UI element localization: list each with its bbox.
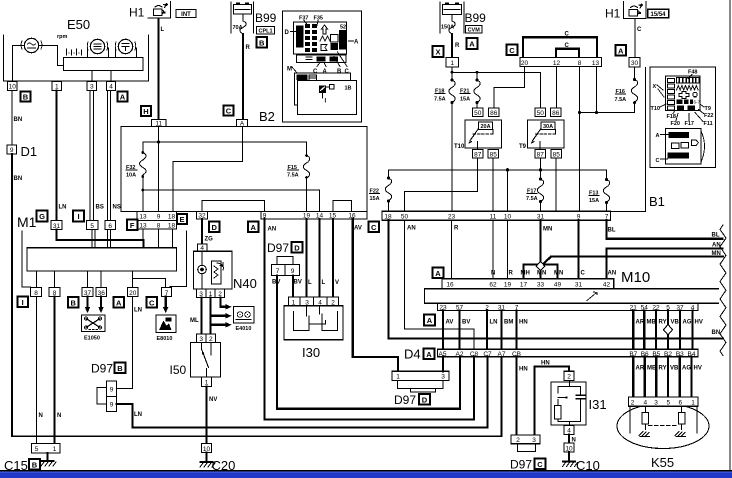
svg-text:AR: AR [636, 366, 645, 372]
svg-text:3: 3 [90, 84, 94, 91]
svg-text:7.5A: 7.5A [615, 97, 627, 103]
svg-text:MB: MB [647, 320, 657, 326]
wire N M1-8 to C15-1 [53, 297, 55, 444]
svg-text:I30: I30 [302, 345, 320, 360]
arrows to E4010 [221, 306, 228, 308]
gauge G3 (temp) [118, 39, 132, 53]
svg-text:NS: NS [113, 205, 121, 211]
svg-text:C: C [656, 158, 660, 164]
svg-text:RY: RY [659, 320, 667, 326]
svg-text:MH: MH [521, 271, 530, 277]
connector letter A [467, 38, 478, 49]
svg-text:X: X [435, 48, 440, 57]
svg-text:rpm: rpm [57, 34, 68, 40]
svg-text:T9: T9 [519, 144, 527, 150]
svg-text:C: C [537, 460, 543, 469]
relay T9 pin 86 [551, 108, 562, 117]
svg-text:9: 9 [110, 402, 114, 409]
svg-text:6: 6 [108, 223, 112, 230]
svg-text:10: 10 [9, 84, 17, 91]
pin 1 of B1 top [446, 58, 459, 68]
T10 85 to B1 pin 11 [492, 158, 494, 211]
svg-text:AN: AN [712, 243, 721, 249]
svg-text:B: B [23, 93, 29, 102]
connector letter C [507, 45, 518, 56]
svg-text:E1050: E1050 [84, 336, 100, 342]
svg-text:C: C [565, 43, 570, 49]
svg-text:HN: HN [519, 320, 528, 326]
rpm gauge ticks [67, 49, 82, 55]
ignition switch connector row 20 12 8 13 [520, 58, 602, 67]
CPL1 label box [257, 27, 275, 35]
svg-text:T10: T10 [454, 144, 465, 150]
svg-text:HV: HV [695, 320, 703, 326]
svg-text:50: 50 [537, 110, 545, 117]
right window frame [729, 0, 731, 470]
switch I50 [197, 334, 216, 343]
fuse F16 7.5A [634, 67, 636, 79]
svg-text:F18: F18 [667, 114, 676, 120]
pin 30 [629, 58, 640, 68]
inset right fuse panel [666, 76, 701, 111]
svg-text:13: 13 [592, 60, 600, 67]
wire pin 13 down to F13 [596, 67, 598, 113]
svg-text:N: N [491, 271, 495, 277]
svg-text:ZG: ZG [205, 237, 214, 243]
wire gauge G1 to pin 10 [13, 46, 25, 82]
connector letters under M1 [18, 297, 29, 308]
B2 interior elbow pins 32-9 [202, 201, 265, 212]
svg-text:1: 1 [450, 60, 454, 67]
svg-text:8: 8 [578, 60, 582, 67]
pin 1 [52, 82, 62, 91]
svg-text:D: D [422, 395, 428, 404]
svg-text:I31: I31 [589, 397, 607, 412]
wire B1-23 to M10-16 [451, 220, 453, 279]
svg-text:A: A [427, 316, 433, 325]
K55 resistor 2 [681, 406, 683, 412]
svg-text:I: I [77, 212, 79, 221]
svg-text:12: 12 [553, 60, 561, 67]
engine ground C15 [32, 444, 61, 454]
connector letter X [433, 46, 444, 57]
svg-text:BN: BN [712, 330, 721, 336]
fuse F21 15A [476, 72, 478, 79]
svg-text:23: 23 [448, 214, 456, 221]
svg-text:N: N [57, 413, 61, 419]
svg-text:MN: MN [712, 251, 721, 257]
B2 stacked connector rows 13 9 18 [137, 212, 177, 221]
svg-text:F: F [130, 221, 135, 230]
svg-text:20: 20 [129, 290, 137, 297]
INT label box [176, 10, 196, 18]
svg-text:19: 19 [504, 282, 512, 289]
idle actuator N40 [198, 244, 208, 252]
wires M10 right group to D4 B row [632, 311, 634, 349]
connector letter A [616, 45, 627, 56]
connector letter A [433, 268, 444, 279]
svg-text:BS: BS [96, 205, 104, 211]
gauge G1 needle [28, 43, 36, 48]
junction connector D97/D lower [392, 371, 449, 380]
svg-text:F11: F11 [704, 121, 713, 127]
svg-text:BV: BV [294, 280, 302, 286]
svg-text:4: 4 [109, 84, 113, 91]
connector letter A [118, 92, 128, 102]
svg-text:T9: T9 [705, 106, 711, 112]
wire pin 20 to T10 coil 86 [494, 67, 525, 109]
svg-text:BV: BV [272, 280, 280, 286]
svg-text:R: R [246, 45, 251, 51]
svg-text:50: 50 [474, 110, 482, 117]
svg-text:T10: T10 [651, 106, 660, 112]
I31 pin 4 [564, 425, 574, 434]
svg-text:K55: K55 [651, 455, 674, 470]
svg-text:2: 2 [516, 437, 520, 444]
svg-text:F48: F48 [688, 70, 697, 76]
svg-text:D: D [285, 30, 290, 36]
E4010 icon box [234, 307, 255, 324]
fuse F32 10A [142, 142, 144, 152]
node D1 wire BN [11, 91, 13, 146]
B1 bottom connector row [382, 211, 611, 220]
arrows M1 37/36 to E1050 [86, 297, 88, 308]
svg-text:D1: D1 [21, 144, 38, 159]
wire gauge G1 to module [39, 46, 64, 66]
relay T10 pin 50 [473, 108, 484, 117]
svg-text:LN: LN [59, 205, 67, 211]
svg-text:15/54: 15/54 [650, 12, 666, 18]
M1 pin 5 [87, 221, 99, 230]
svg-text:52: 52 [340, 25, 346, 31]
svg-text:AV: AV [446, 320, 454, 326]
svg-text:11: 11 [490, 214, 497, 221]
svg-text:AV: AV [354, 226, 362, 232]
svg-text:4: 4 [567, 428, 571, 435]
svg-text:G: G [39, 212, 45, 221]
svg-text:42: 42 [603, 282, 611, 289]
svg-text:D97: D97 [394, 393, 416, 407]
svg-text:49: 49 [554, 282, 562, 289]
svg-text:BL: BL [608, 228, 616, 234]
svg-text:B99: B99 [465, 11, 487, 25]
svg-text:A: A [354, 40, 359, 46]
connector letter H [141, 106, 151, 116]
fuse F17 7.5A [539, 178, 542, 181]
wire B1-7 BL bus [607, 220, 723, 239]
svg-text:AN: AN [407, 226, 416, 232]
inset B2 relay symbols [322, 25, 328, 34]
svg-text:62: 62 [489, 282, 497, 289]
svg-text:86: 86 [490, 110, 498, 117]
B1 right edge [611, 67, 646, 211]
svg-text:A: A [656, 133, 660, 139]
svg-text:R: R [509, 271, 514, 277]
svg-text:B: B [117, 364, 123, 373]
svg-text:HV: HV [694, 366, 702, 372]
wire B1-11 N to M10-62 [492, 220, 494, 279]
pin 3 [87, 82, 97, 91]
I5/54 label box [648, 9, 669, 18]
wire B1-18 BN bus [389, 220, 724, 338]
svg-text:AR: AR [636, 320, 645, 326]
svg-text:H1: H1 [129, 6, 145, 20]
svg-text:D4: D4 [404, 347, 421, 362]
svg-text:E8010: E8010 [157, 336, 173, 342]
ground C10 [568, 452, 570, 462]
svg-text:X: X [653, 84, 657, 90]
svg-text:A: A [469, 40, 475, 49]
fuse F15 7.5A [306, 142, 308, 155]
svg-text:9: 9 [10, 147, 14, 154]
feed rail F22 F13 [389, 169, 607, 171]
connector letter A [248, 222, 259, 233]
wire F18 down to B1 pin 23 [451, 103, 453, 211]
wire N to C10 [568, 435, 570, 444]
svg-text:3: 3 [441, 374, 445, 381]
wire D97/B lower to LN bus [117, 357, 488, 428]
wire AV B2-16 to D97/D pin1 [353, 219, 398, 371]
M1 bottom pins [31, 288, 42, 297]
arrow M1-7 to E8010 [165, 297, 167, 308]
wire F16 to junction rail [580, 103, 635, 113]
svg-text:C: C [149, 298, 155, 307]
svg-text:6-7: 6-7 [694, 100, 701, 105]
svg-text:BL: BL [712, 233, 720, 239]
svg-text:LN: LN [490, 320, 498, 326]
switch I30 [289, 297, 339, 306]
svg-text:1: 1 [691, 400, 695, 407]
svg-text:15A: 15A [460, 97, 470, 103]
svg-text:A: A [116, 298, 122, 307]
M10 bottom row [438, 303, 699, 310]
svg-text:A: A [120, 93, 126, 102]
svg-text:LN: LN [134, 412, 142, 418]
connector letter F [127, 220, 138, 231]
CVM label box [466, 26, 483, 34]
svg-text:10A: 10A [126, 173, 136, 179]
svg-text:N40: N40 [233, 276, 257, 291]
svg-text:C: C [226, 107, 232, 116]
svg-text:F20: F20 [671, 121, 680, 127]
B2 interior: pin11 column [158, 127, 160, 212]
svg-text:B: B [259, 38, 265, 47]
svg-text:20A: 20A [480, 124, 490, 130]
svg-text:HN: HN [519, 367, 528, 373]
svg-text:MB: MB [647, 366, 657, 372]
wires B2 19/14/15 to I30 [306, 219, 308, 297]
svg-text:E4010: E4010 [236, 326, 252, 332]
svg-text:D97: D97 [510, 458, 532, 472]
wire BN down to bottom bus [12, 154, 502, 436]
B2 interior rail [143, 141, 307, 143]
connector letter C [369, 222, 380, 233]
T9 87 down through F17 [540, 158, 542, 179]
wire B1-50 AN to D4 C8 [405, 220, 475, 349]
C bus outer jumper [523, 37, 597, 57]
wire AV M10-23 to D4-A5 [442, 311, 444, 350]
svg-text:E50: E50 [67, 17, 90, 32]
svg-text:H1: H1 [605, 7, 621, 21]
inset B2 relay box M [295, 73, 351, 105]
connector letter C [224, 106, 234, 116]
wire ZG pin32 to N40 [201, 219, 203, 244]
svg-text:B: B [70, 298, 76, 307]
connector letter E [177, 214, 187, 224]
fusebox location inset (B2) [283, 11, 362, 122]
K55 resistor 1 [644, 406, 646, 412]
wires NS E50-4 to M1-6 [107, 91, 110, 221]
B2 interior notch pins 15-16 [333, 201, 352, 212]
wire BM M10-31 to D4-A7 [501, 311, 503, 350]
svg-text:31: 31 [575, 282, 583, 289]
svg-text:V: V [335, 280, 339, 286]
svg-text:D: D [294, 243, 300, 252]
svg-text:D97: D97 [267, 241, 289, 255]
wire LN E50-1 to M1-31 [55, 91, 57, 221]
I31 body [551, 382, 586, 425]
M1 bottom stems [36, 271, 132, 288]
junction connector D97/C [511, 435, 540, 444]
svg-text:H: H [143, 107, 148, 116]
fuse F18 7.5A [451, 72, 453, 79]
svg-text:2: 2 [631, 400, 635, 407]
svg-text:NV: NV [209, 397, 217, 403]
svg-text:F17: F17 [685, 121, 694, 127]
svg-text:AG: AG [683, 320, 692, 326]
svg-text:BN: BN [14, 117, 23, 123]
svg-text:1: 1 [53, 446, 57, 453]
relay T9 pin 50 [535, 108, 546, 117]
svg-text:7.5A: 7.5A [526, 196, 538, 202]
svg-text:L: L [308, 280, 312, 286]
svg-text:15A: 15A [370, 196, 380, 202]
fuse inset top right [650, 67, 716, 168]
svg-text:C: C [565, 32, 570, 38]
wire L from H1 [158, 19, 160, 120]
svg-text:5: 5 [666, 400, 670, 407]
svg-text:MN: MN [554, 271, 563, 277]
svg-text:20: 20 [521, 60, 529, 67]
svg-text:L: L [322, 280, 326, 286]
ground C20 [206, 453, 208, 463]
svg-text:M10: M10 [621, 269, 650, 286]
pin 11 on B2 top [152, 120, 167, 127]
svg-text:10: 10 [504, 214, 512, 221]
svg-text:B1: B1 [649, 194, 665, 209]
B2 interior rail2 to pin14 [143, 190, 320, 212]
svg-text:M1: M1 [17, 214, 37, 230]
svg-text:17: 17 [520, 282, 528, 289]
svg-text:C: C [581, 271, 586, 277]
branch to B1 pin 10 [507, 170, 509, 212]
svg-text:A: A [435, 269, 441, 278]
svg-text:A: A [250, 223, 256, 232]
gauge G2 (fuel) [90, 39, 104, 53]
svg-text:N: N [39, 413, 43, 419]
diamond branch to MN bus [544, 257, 723, 264]
wire HN D4-CB to D97/C-2 [515, 357, 517, 435]
M1 pin 31 [51, 221, 62, 230]
svg-text:5: 5 [90, 223, 94, 230]
M1 internal connections [57, 230, 144, 248]
svg-text:VB: VB [671, 320, 680, 326]
svg-text:CPL1: CPL1 [258, 29, 272, 35]
relay T10 pin 86 [489, 108, 500, 117]
connector D4 row [438, 349, 699, 357]
junction diamond [536, 262, 545, 271]
svg-text:3: 3 [654, 400, 658, 407]
wire BV D97/D-9 to I30-1 [292, 276, 294, 298]
wire ML N40-3 to I50 [200, 298, 202, 334]
svg-text:R: R [455, 43, 460, 49]
ground pin 10 [202, 444, 212, 453]
wire NV to C20 [205, 387, 207, 444]
inset B2 lower shelf [297, 55, 347, 63]
fusebox B2 body [121, 127, 367, 212]
K55 connector row [629, 397, 699, 406]
svg-text:30A: 30A [543, 124, 553, 130]
wire B1-31 MN to diamond [539, 220, 541, 261]
svg-text:6: 6 [678, 400, 682, 407]
junction diamond on VB [664, 325, 673, 335]
rail pin1 to relays [452, 67, 541, 108]
svg-text:INT: INT [181, 12, 191, 18]
svg-text:8: 8 [34, 290, 38, 297]
svg-text:A: A [618, 46, 624, 55]
svg-text:C: C [637, 27, 642, 33]
wire BV M10-57 to D4-A2 [458, 311, 460, 350]
inset B2 fuse panel [294, 22, 347, 54]
svg-text:C: C [509, 46, 515, 55]
body control M10 top row [442, 279, 614, 289]
svg-text:1B: 1B [345, 86, 352, 92]
wires BS E50-3 to M1-5 [90, 91, 93, 221]
svg-text:D: D [211, 223, 217, 232]
I50 pin 1 [202, 377, 212, 387]
svg-text:R: R [454, 226, 459, 232]
heated rear window K55 [617, 404, 709, 449]
svg-text:9: 9 [110, 387, 114, 394]
svg-text:A7: A7 [498, 351, 506, 358]
svg-text:15A: 15A [589, 198, 599, 204]
svg-text:AG: AG [682, 366, 691, 372]
M10 body [425, 289, 719, 304]
svg-text:VB: VB [670, 366, 679, 372]
svg-text:7.5A: 7.5A [434, 97, 446, 103]
wire pin 12 to T9 coil 86 [556, 67, 558, 109]
T10 87 to B1 pin 50 [405, 158, 478, 211]
wire R to B2 pin A [242, 34, 244, 120]
T9 85 down to B1 [555, 158, 557, 211]
svg-text:13: 13 [139, 214, 147, 221]
B2 pin 32 [197, 212, 208, 219]
module legs [92, 71, 111, 82]
svg-text:16: 16 [446, 282, 454, 289]
fuse label underlines [126, 94, 626, 196]
svg-text:AN: AN [608, 271, 617, 277]
svg-text:D97: D97 [91, 362, 113, 376]
svg-text:18: 18 [168, 214, 176, 221]
D97/B connector body [107, 381, 117, 412]
wire B1-10 R to M10-19 [507, 220, 509, 279]
gauge G1 (clock) [24, 38, 38, 52]
svg-text:BV: BV [462, 320, 470, 326]
wire D4-A5 to D97/D-3 [442, 357, 444, 371]
battery B99 left [231, 2, 254, 33]
svg-text:2: 2 [567, 374, 571, 381]
N40 pins 3 1 2 [197, 289, 225, 298]
